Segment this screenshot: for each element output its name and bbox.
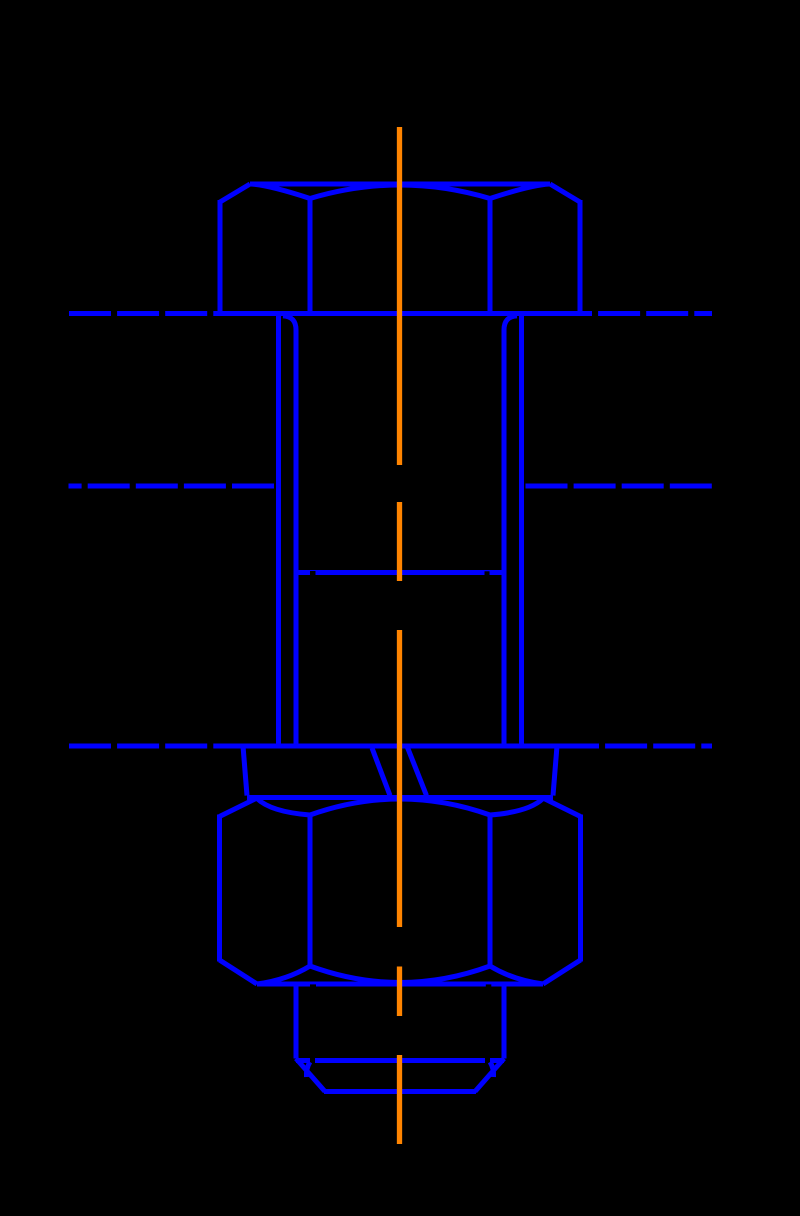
nut top right face arc: [490, 799, 543, 816]
hex head inner edge right: [488, 199, 493, 314]
nut top left face arc: [257, 799, 310, 816]
nut inner edge left: [308, 815, 313, 967]
hex head middle face arc: [310, 185, 490, 199]
nut bottom face line: [257, 982, 543, 987]
hex head inner edge left: [308, 199, 313, 314]
dashed hidden line top (under-head surface): [69, 311, 712, 316]
washer bottom / nut top line: [247, 795, 553, 800]
nut bottom line notch right: [486, 984, 492, 988]
nut top chamfer right: [543, 798, 581, 817]
thread runout line: [299, 570, 502, 575]
dashed hidden line bottom left: [69, 744, 243, 749]
nut bottom chamfer right: [543, 960, 581, 984]
washer split diagonal left: [372, 748, 390, 796]
nut top middle face arc: [310, 799, 490, 815]
centerline segment 5: [397, 1055, 402, 1144]
hex head bottom line: [218, 311, 582, 316]
dashed hidden line middle left: [69, 484, 275, 489]
centerline segment 3: [397, 630, 402, 927]
thread line notch left: [310, 571, 316, 576]
hex head right face arc: [490, 184, 550, 199]
bolt end left edge: [294, 986, 299, 1059]
washer split diagonal right: [408, 748, 427, 796]
bolt tip bottom line: [324, 1089, 476, 1094]
nut inner edge right: [488, 815, 493, 967]
dashed hidden line middle right: [526, 484, 714, 489]
bolt end right edge: [502, 986, 507, 1059]
dashed hidden line bottom right: [557, 744, 712, 749]
washer right edge: [553, 746, 557, 796]
clearance hole right edge: [519, 316, 524, 745]
hex head right chamfer: [550, 184, 580, 202]
bolt end chamfer silhouette tick right: [490, 1062, 494, 1077]
bolt shank right edge with under-head fillet: [504, 316, 517, 744]
hex head left outer edge: [218, 200, 223, 316]
nut right outer edge: [578, 815, 583, 962]
nut left outer edge: [217, 815, 222, 962]
hex head left chamfer: [220, 184, 250, 202]
washer left edge: [243, 746, 247, 796]
clearance hole left edge: [276, 316, 281, 745]
bolt end chamfer diagonal left: [296, 1059, 325, 1092]
bolt shank left edge with under-head fillet: [283, 316, 296, 744]
bolt end chamfer line: [296, 1058, 504, 1063]
centerline segment 4: [397, 967, 402, 1017]
nut bottom chamfer left: [220, 960, 258, 984]
washer top line: [243, 744, 557, 749]
centerline segment 1: [397, 127, 402, 465]
nut bottom line notch left: [310, 984, 316, 988]
hex head left face arc: [251, 184, 311, 199]
nut bottom left face arc: [257, 966, 310, 984]
nut bottom middle face arc: [310, 966, 490, 983]
thread line notch right: [485, 571, 490, 576]
bolt end chamfer silhouette tick left: [306, 1062, 310, 1077]
hex head right outer edge: [578, 200, 583, 316]
nut top chamfer left: [220, 798, 258, 817]
centerline segment 2: [397, 502, 402, 581]
hex head top line: [250, 182, 550, 187]
nut bottom right face arc: [490, 966, 543, 984]
bolt end chamfer diagonal right: [475, 1059, 504, 1092]
